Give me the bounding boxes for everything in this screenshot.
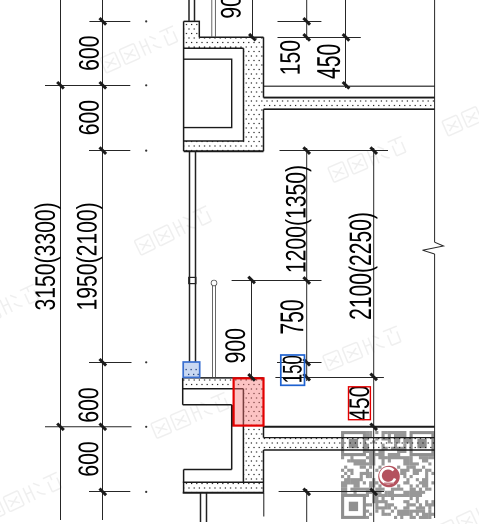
storey dimension chain line (102, 0, 104, 520)
red highlight block (450 spandrel wall) (234, 378, 264, 425)
railing knob (211, 280, 217, 286)
lower floor slab second line (264, 437, 436, 439)
window transom coupler (189, 277, 196, 283)
extension line y426 (45, 426, 132, 428)
tick marks storey chain (100, 18, 107, 25)
extension line y21 (89, 21, 321, 23)
extension line y280 (232, 280, 322, 282)
dimension text 1200(1350) (285, 166, 311, 271)
dimension line 2100(2250)/450 (373, 148, 375, 522)
overall dimension line 3150(3300) (60, 0, 62, 520)
dimension line 900 (top, clipped) (252, 0, 254, 37)
tick marks 900 railing dimension (248, 277, 255, 284)
upper wall hatch (parapet pier + lintel band + wall + sill slab) (184, 21, 264, 151)
section cut line with break (434, 0, 436, 518)
dimension text 600 (storey seg 2) (79, 101, 99, 134)
dimension text 450 (beam) (317, 45, 340, 79)
dimension text 3150(3300) (34, 204, 60, 310)
upper floor slab finish line (264, 85, 436, 87)
dimension text 900 (railing height) (225, 329, 245, 363)
lower sill slab and spandrel outline (183, 378, 264, 493)
extension line y492 (89, 491, 384, 493)
axis reference dots (145, 20, 147, 493)
dimension line 150/1200/750/150 (three pieces) (306, 0, 308, 522)
extension line y37 (278, 37, 361, 39)
dimension text 150 (lintel) (280, 41, 300, 74)
dimension text 600 (storey seg 1) (79, 36, 99, 69)
tick marks 450 beam dimension (343, 34, 350, 41)
tick marks 150/1200/750/150 line (303, 18, 310, 25)
window head recess outline (184, 59, 232, 127)
upper wall outline (pier, lintel band, wall faces, head recess shelf) (184, 21, 264, 151)
main window glazing (double line) (190, 152, 196, 362)
railing post (double thin line) (213, 286, 216, 378)
extension line y377 (275, 377, 384, 379)
upper floor slab soffit line (264, 108, 436, 110)
dimension line 900 (railing) (251, 279, 253, 378)
tick mark top 900 dimension (249, 34, 256, 41)
lower floor slab soffit line (264, 449, 436, 451)
extension line y362 (89, 362, 322, 364)
floor slab upper hatch (264, 98, 436, 110)
window sill slab bottom edge (thick) (184, 150, 264, 152)
tick marks 2100/450 line (370, 147, 377, 154)
dimension line 450 (beam) (345, 0, 347, 88)
dimension text 750 (280, 300, 303, 333)
floor slab lower hatch (264, 438, 436, 451)
blue highlight block (150 sill upstand) (183, 362, 200, 377)
wall face below base band (263, 493, 265, 517)
dimension text 150 (blue boxed) (283, 356, 302, 382)
window above (double glazing lines, clipped at top) (189, 0, 195, 21)
dimension text 600 (storey seg 3) (78, 388, 98, 421)
lower wall hatch (sill slab + spandrel wall + base band) (183, 378, 264, 493)
lower floor slab top line (thick) (264, 426, 436, 428)
dimension text 900 (top, clipped) (221, 0, 241, 18)
dimension text 1950(2100) (76, 204, 102, 309)
red callout box around 450 (349, 387, 371, 420)
QR code (bottom right, translucent gray) (341, 431, 435, 519)
dimension text 450 (red boxed) (349, 386, 369, 420)
window below (double glazing lines, clipped at bottom) (201, 494, 207, 523)
blue callout box around 150 (281, 355, 305, 385)
break (zigzag) symbol (423, 242, 444, 254)
base band bottom edge (thick) (183, 492, 264, 494)
frame edge lines above lintel (212, 0, 216, 37)
dimension text 2100(2250) (349, 213, 378, 319)
tick marks overall dimension (57, 82, 64, 89)
upper floor slab top line (thick) (264, 97, 436, 99)
dimension text 600 (storey seg 4) (78, 442, 98, 475)
extension line y150 (89, 150, 388, 152)
extension line y85 (45, 85, 130, 87)
